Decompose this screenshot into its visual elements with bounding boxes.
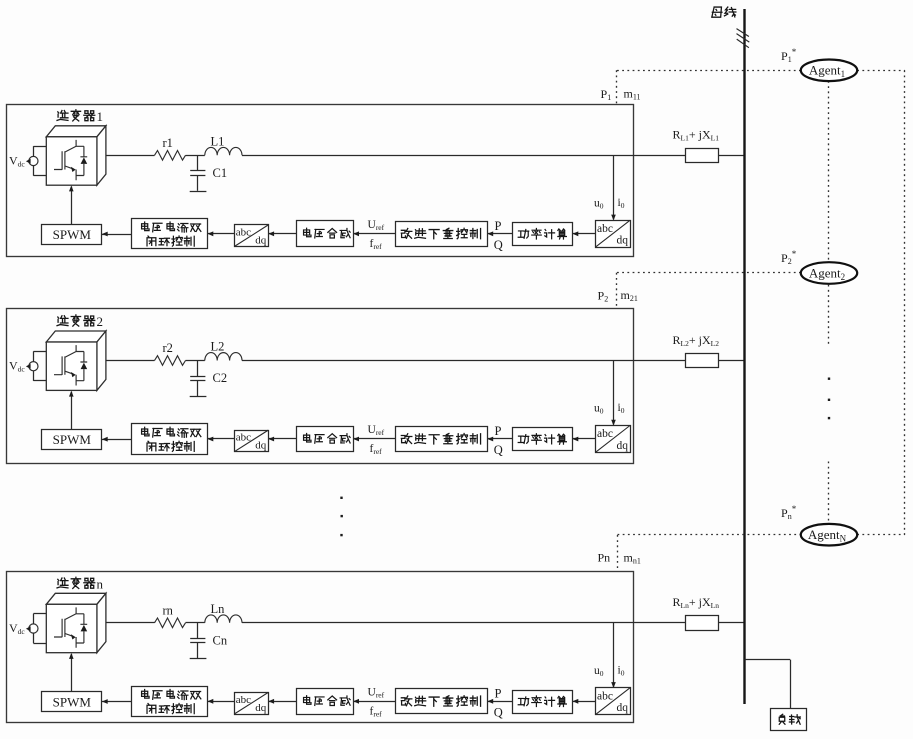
svg-text:dq: dq [255, 702, 267, 714]
wire L2 to line impedance [242, 360, 685, 362]
svg-text:r2: r2 [163, 341, 173, 355]
capacitor Cn [197, 623, 199, 639]
wire inverter output [106, 360, 155, 362]
wire impedance to bus [719, 155, 746, 157]
block 改进下垂控制 (improved droop control) [396, 222, 488, 247]
wire abc/dq to dual-loop control [208, 701, 235, 703]
dotted ref line P1* horizontal [617, 70, 801, 72]
wire Vdc to inverter (top) [33, 351, 35, 361]
DC source Vdc [9, 621, 38, 636]
wire voltage synthesis to abc/dq [268, 438, 296, 440]
inverter bridge block (3D box) [46, 126, 106, 185]
wire r1 to node [186, 155, 205, 157]
Agent1 ellipse [801, 60, 857, 82]
dotted link Agent1-Agent2 [828, 81, 830, 262]
block SPWM [42, 692, 102, 712]
label 母线 [712, 7, 722, 17]
arrow into dual-loop control [208, 231, 214, 236]
line impedance R_L2+jX_L2 box [686, 354, 719, 368]
abc/dq transform (measurement) [596, 688, 631, 715]
resistor r2 [155, 356, 186, 366]
arrow into power calc [573, 231, 579, 236]
wire bus to load [745, 659, 791, 661]
wire inverter output [106, 155, 155, 157]
svg-text:Q: Q [494, 443, 503, 457]
ground bar below C1 [190, 191, 207, 193]
svg-text:SPWM: SPWM [53, 694, 92, 709]
inductor L1 [205, 147, 242, 155]
abc/dq transform (control) [235, 431, 269, 452]
arrow into abc/dq [268, 231, 274, 236]
svg-text:n: n [97, 577, 104, 592]
svg-text:P: P [495, 687, 502, 701]
wire rn to node [186, 622, 205, 624]
dotted drop to subsystem 1 [616, 70, 618, 104]
line impedance R_Ln+jX_Ln box [686, 616, 719, 631]
svg-text:SPWM: SPWM [53, 227, 92, 242]
svg-text:Pn: Pn [598, 551, 611, 565]
svg-text:dq: dq [617, 440, 629, 452]
arrow into SPWM [102, 437, 108, 442]
svg-text:L2: L2 [211, 340, 225, 354]
sense tap u0/i0 [613, 361, 615, 425]
dotted ref line Pn* horizontal [618, 534, 801, 536]
bus 3-phase break marks [737, 29, 749, 37]
ellipsis agent column [828, 378, 830, 420]
svg-text:Cn: Cn [213, 634, 228, 648]
block 电压电流双闭环控制 (V/I dual closed-loop control) [132, 687, 208, 717]
arrow into SPWM [102, 232, 108, 237]
svg-text:abc: abc [236, 694, 251, 706]
abc/dq transform (measurement) [596, 221, 631, 248]
wire Vdc to inverter (bottom) [33, 371, 35, 381]
block 电压合成 (voltage synthesis) [297, 689, 354, 715]
abc/dq transform (control) [235, 225, 269, 247]
wire abc/dq to dual-loop control [208, 438, 235, 440]
wire dual-loop control to SPWM [102, 234, 132, 236]
svg-text:dq: dq [617, 235, 629, 247]
arrow into voltage synthesis [353, 699, 359, 704]
wire Uref/fref to voltage synthesis [353, 233, 395, 235]
arrow into abc/dq [268, 437, 274, 442]
dotted drop to subsystem n [617, 535, 619, 572]
DC source Vdc [9, 154, 38, 169]
wire Uref/fref to voltage synthesis [353, 438, 395, 440]
wire impedance to bus [719, 622, 746, 624]
wire voltage synthesis to abc/dq [268, 233, 296, 235]
sense tap u0/i0 [613, 155, 615, 219]
svg-text:P: P [495, 219, 502, 233]
IGBT Q with freewheel diode [54, 140, 87, 180]
wire r2 to node [186, 360, 205, 362]
svg-text:Ln: Ln [211, 602, 226, 616]
wire abc/dq to power calc [573, 233, 596, 235]
wire P/Q to droop control [487, 438, 513, 440]
label 逆变器1 [57, 109, 103, 124]
wire SPWM to inverter gate [71, 187, 73, 225]
dotted drop to subsystem 2 [616, 273, 618, 309]
bus 母线 vertical line [743, 9, 745, 704]
block 改进下垂控制 (improved droop control) [396, 427, 488, 452]
wire abc/dq to dual-loop control [208, 233, 235, 235]
wire dual-loop control to SPWM [102, 439, 132, 441]
inverter bridge block (3D box) [46, 331, 106, 390]
wire P/Q to droop control [487, 701, 513, 703]
sense tap u0/i0 [613, 623, 615, 687]
svg-text:L1: L1 [211, 135, 225, 149]
block 电压合成 (voltage synthesis) [297, 427, 354, 452]
abc/dq transform (control) [235, 693, 269, 715]
svg-text:dq: dq [255, 440, 267, 452]
resistor r1 [155, 151, 186, 161]
block 功率计算 (power calculation) [513, 691, 573, 714]
capacitor C2 [197, 361, 199, 377]
wire Vdc to inverter (top) [33, 614, 35, 624]
arrow into abc/dq [268, 699, 274, 704]
svg-text:Q: Q [494, 706, 503, 720]
svg-text:SPWM: SPWM [53, 432, 92, 447]
wire Vdc to inverter (top) [33, 146, 35, 156]
wire P/Q to droop control [487, 233, 513, 235]
load box 负载 [771, 709, 807, 731]
svg-text:Q: Q [494, 238, 503, 252]
dotted link above AgentN [828, 462, 830, 525]
wire L1 to line impedance [242, 155, 685, 157]
svg-text:Agent2: Agent2 [809, 265, 845, 282]
svg-text:2: 2 [97, 314, 104, 329]
block SPWM [42, 430, 102, 450]
wire impedance to bus [719, 360, 746, 362]
svg-text:abc: abc [597, 223, 613, 235]
ellipsis between subsystems [340, 497, 343, 537]
Agent2 ellipse [801, 262, 857, 284]
wire Uref/fref to voltage synthesis [353, 701, 395, 703]
svg-text:C2: C2 [213, 371, 228, 385]
block 功率计算 (power calculation) [513, 428, 573, 451]
inverter bridge block (3D box) [46, 593, 106, 652]
block 功率计算 (power calculation) [513, 223, 573, 246]
wire voltage synthesis to abc/dq [268, 701, 296, 703]
resistor rn [155, 618, 186, 628]
IGBT Q with freewheel diode [54, 607, 87, 647]
capacitor C1 [197, 155, 199, 171]
wire SPWM to inverter gate [71, 392, 73, 430]
svg-text:C1: C1 [213, 166, 228, 180]
arrow into droop control [487, 699, 493, 704]
block 电压合成 (voltage synthesis) [297, 221, 354, 247]
label 逆变器2 [57, 314, 103, 329]
inverter subsystem 1 outer frame [7, 105, 634, 257]
wire Vdc to inverter (bottom) [33, 166, 35, 176]
ground bar below C2 [190, 396, 207, 398]
svg-text:abc: abc [597, 428, 613, 440]
svg-text:1: 1 [97, 109, 104, 124]
svg-text:dq: dq [617, 702, 629, 714]
DC source Vdc [9, 359, 38, 374]
arrow into SPWM [102, 699, 108, 704]
dotted right-side link Agent1-AgentN [904, 70, 906, 535]
arrow into droop control [487, 231, 493, 236]
IGBT Q with freewheel diode [54, 345, 87, 385]
block SPWM [42, 225, 102, 245]
arrow into power calc [573, 437, 579, 442]
svg-text:dq: dq [255, 235, 267, 247]
block 改进下垂控制 (improved droop control) [396, 689, 488, 714]
block 电压电流双闭环控制 (V/I dual closed-loop control) [132, 219, 208, 249]
svg-text:r1: r1 [163, 136, 173, 150]
wire abc/dq to power calc [573, 438, 596, 440]
inductor Ln [205, 615, 242, 623]
svg-text:rn: rn [163, 604, 174, 618]
arrow into dual-loop control [208, 437, 214, 442]
inverter subsystem n outer frame [7, 572, 634, 723]
label 逆变器n [57, 577, 103, 592]
ground bar below Cn [190, 658, 207, 660]
line impedance R_L1+jX_L1 box [686, 149, 719, 163]
block 电压电流双闭环控制 (V/I dual closed-loop control) [132, 424, 208, 455]
svg-text:abc: abc [236, 226, 251, 238]
svg-text:P: P [495, 424, 502, 438]
svg-text:Agent1: Agent1 [809, 63, 845, 80]
wire SPWM to inverter gate [71, 654, 73, 692]
dotted ref line P2* horizontal [617, 272, 800, 274]
wire inverter output [106, 622, 155, 624]
arrow into voltage synthesis [353, 437, 359, 442]
wire Ln to line impedance [242, 622, 685, 624]
svg-text:abc: abc [597, 690, 613, 702]
svg-text:abc: abc [236, 432, 251, 444]
wire abc/dq to power calc [573, 701, 596, 703]
wire Vdc to inverter (bottom) [33, 633, 35, 643]
inverter subsystem 2 outer frame [7, 309, 634, 464]
dotted link below Agent2 [828, 285, 830, 346]
arrow into power calc [573, 699, 579, 704]
AgentN ellipse [801, 524, 857, 546]
arrow into voltage synthesis [353, 231, 359, 236]
inductor L2 [205, 353, 242, 361]
abc/dq transform (measurement) [596, 426, 631, 453]
arrow into dual-loop control [208, 699, 214, 704]
wire dual-loop control to SPWM [102, 701, 132, 703]
arrow into droop control [487, 437, 493, 442]
